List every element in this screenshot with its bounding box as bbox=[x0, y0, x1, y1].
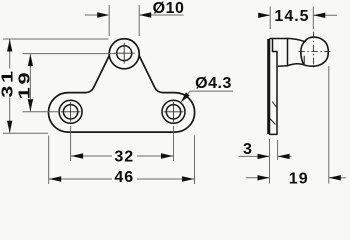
side view plate left edge (thick) bbox=[267, 39, 269, 134]
ball head bbox=[301, 37, 328, 66]
dim 14.5 extension lines bbox=[270, 7, 313, 30]
stud neck top bbox=[288, 38, 305, 41]
svg-text:Ø10: Ø10 bbox=[153, 0, 185, 17]
stud neck bottom bbox=[278, 64, 304, 67]
dim 3 extension lines bbox=[270, 139, 278, 168]
top hole centerlines bbox=[114, 43, 135, 64]
dim 31 top tick bbox=[3, 38, 109, 40]
svg-text:3: 3 bbox=[243, 141, 252, 158]
dim 19 line bbox=[29, 54, 31, 112]
boss circle lower arc bbox=[109, 56, 139, 69]
side view plate bbox=[270, 39, 278, 135]
left hole centerlines bbox=[61, 102, 81, 122]
svg-text:14.5: 14.5 bbox=[274, 8, 309, 25]
right hole Ø4.3 countersunk bbox=[162, 100, 185, 123]
top hole (Ø10 boss bore) bbox=[117, 46, 132, 61]
dim 3 arrows bbox=[238, 155, 269, 157]
dim Ø4.3 leader bbox=[182, 91, 234, 101]
dim 32 line bbox=[71, 155, 174, 157]
svg-text:19: 19 bbox=[289, 170, 309, 187]
dim 46 line bbox=[49, 178, 195, 180]
dim 14.5 arrows bbox=[258, 14, 270, 16]
svg-text:31: 31 bbox=[0, 68, 17, 97]
dim 19 side extension lines bbox=[270, 66, 329, 184]
dim 32 extension lines bbox=[71, 126, 174, 161]
right hole centerlines bbox=[164, 102, 184, 122]
dim 19 side arrows bbox=[246, 177, 269, 179]
dim Ø10 extension lines bbox=[109, 5, 139, 36]
dim 19 bottom tick bbox=[23, 111, 61, 113]
svg-text:46: 46 bbox=[114, 169, 134, 186]
dim 46 extension lines bbox=[49, 136, 195, 185]
dim 31 line bbox=[9, 39, 11, 133]
left hole Ø4.3 countersunk bbox=[59, 100, 82, 123]
dim Ø10 arrow right + leader bbox=[139, 14, 183, 16]
svg-text:19: 19 bbox=[16, 70, 34, 99]
dim Ø10 arrow left bbox=[85, 14, 108, 16]
side view break marks bbox=[270, 102, 277, 125]
neck-ball junction bbox=[303, 56, 305, 64]
dim 31 bottom tick bbox=[3, 132, 48, 134]
ball centerlines (dash-dot) bbox=[313, 32, 315, 68]
svg-text:Ø4.3: Ø4.3 bbox=[195, 75, 232, 92]
svg-text:32: 32 bbox=[114, 148, 134, 165]
dim 19 top tick bbox=[23, 53, 117, 55]
stud flange bbox=[270, 39, 288, 66]
plate outline front view bbox=[48, 39, 194, 132]
